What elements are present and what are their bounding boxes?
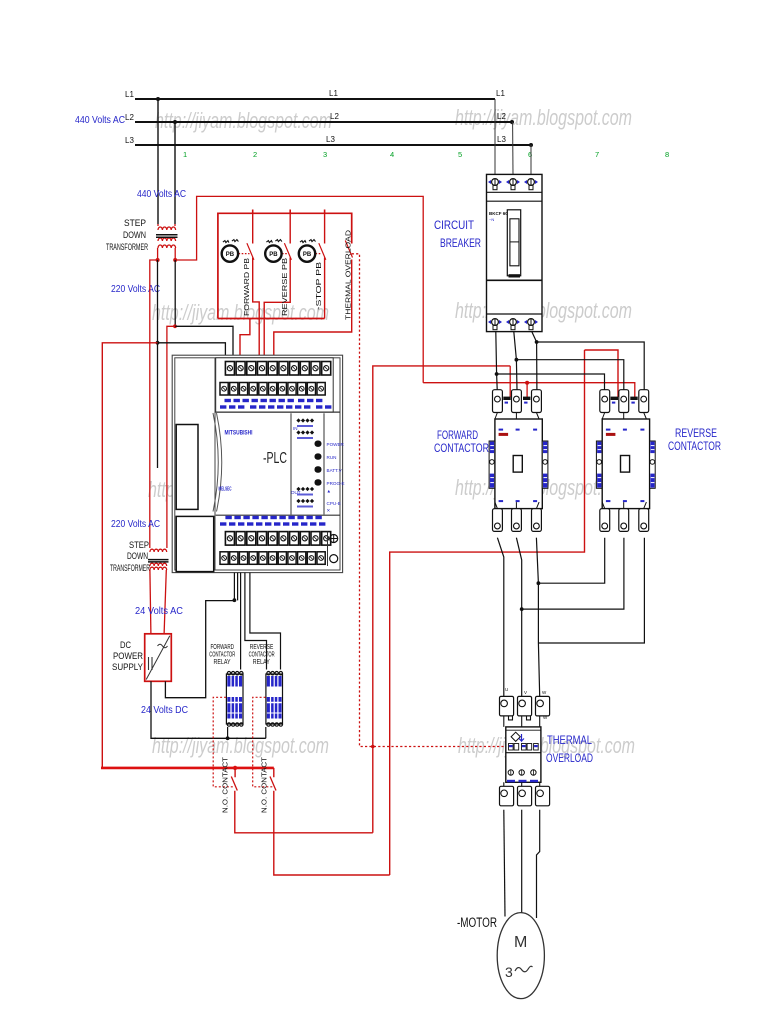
overload screws [508,770,513,775]
wire DC supply output B (to PLC common) [165,601,234,698]
pushbutton FORWARD PB [222,240,239,262]
overload lug stems [504,716,540,727]
wire crossover fwd T2 to rev T2 [522,538,624,609]
pushbutton STOP PB [299,240,316,262]
junction dot coil bus / forward coil [525,381,529,385]
svg-text:L3: L3 [497,135,506,144]
green sheet numbers [183,150,669,159]
junction dot contact 1 feed [233,766,237,770]
svg-text:U: U [505,687,508,692]
svg-text:L2: L2 [497,112,506,121]
circuit breaker CB1 [487,174,543,331]
wire T2 secondary left to DC supply [150,570,151,634]
wire forward T3 output down [536,538,539,697]
svg-text:POWER: POWER [113,651,143,661]
svg-text:DC: DC [120,640,131,650]
wire black stub below 220V node [157,343,159,468]
PLC left module rectangle [176,425,198,510]
N.O. contact 1 (forward) [235,768,373,833]
pushbutton box bottom rail [218,318,325,320]
svg-text:L1: L1 [329,89,338,98]
wire overload U to motor [504,810,505,917]
svg-text:THERMAL: THERMAL [547,733,592,747]
svg-text:220 Volts AC: 220 Volts AC [111,283,160,295]
svg-text:CONTACTOR: CONTACTOR [209,652,235,659]
svg-text:http://jiyam.blogspot.com: http://jiyam.blogspot.com [152,733,329,758]
PLC LED panel diamonds top group [293,418,314,439]
svg-text:V: V [524,690,527,695]
svg-text:L2: L2 [330,112,339,121]
wire forward T2 output to overload V [516,538,521,697]
PLC top terminal row 2 [220,383,325,396]
contact 1 blade [231,777,237,791]
PLC U1 Mitsubishi [172,355,342,572]
pushbutton branch REVERSE PB wire [264,213,290,385]
junction dot L1 tap [156,97,160,101]
svg-text:✕: ✕ [327,508,331,513]
wire forward coil return riser [373,366,510,833]
svg-text:http://jiyam.blogspot.com: http://jiyam.blogspot.com [455,298,632,323]
svg-text:FORWARD PB: FORWARD PB [242,258,251,316]
PLC bottom right mount screw [328,532,338,566]
red control bus thick (24V to contacts) [101,767,274,770]
wire 220V link to T2 primary right [167,326,175,548]
svg-text:THERMAL OVERLOAD: THERMAL OVERLOAD [344,229,353,320]
junction dot L2 breaker corner [510,120,514,124]
breaker top terminal L1 [488,179,502,190]
PLC bottom terminal row 1 [225,532,330,546]
svg-text:6: 6 [528,150,532,159]
thermal overload branch right rail [274,260,352,386]
red dashed linkage box reverse relay [253,697,273,787]
wire L1 parallel feed to reverse contactor [497,374,605,390]
junction dot L2 tap [173,120,177,124]
PLC face curve arc [217,413,222,512]
overload bottom strip [507,780,515,783]
svg-text:IN: IN [293,426,298,431]
label REVERSE CONTACTOR RELAY [249,644,275,666]
label STEP DOWN TRANSFORMER T2 [110,540,150,573]
svg-text:RELAY: RELAY [214,659,231,666]
node 220V supply junction right [173,324,177,328]
wire PLC bottom terminals to common junction [234,573,237,601]
thermal overload OL1 [500,687,550,806]
wire L3 drop to breaker [530,145,532,174]
PLC bottom-left module rectangle [176,516,214,571]
pushbutton branch STOP PB wire [324,213,326,318]
wire forward relay bottom pin to common bus [227,727,229,738]
svg-text:CONTACTOR: CONTACTOR [434,441,489,455]
wire forward coil drop [526,383,528,397]
wire forward coil drop from return bus [509,366,511,397]
red dotted link pb2 [282,253,287,255]
label THERMAL OVERLOAD [546,733,593,765]
PLC top blue label strip A [225,399,323,402]
transformer T2 core [148,559,169,561]
relay K2 reverse [266,672,283,727]
svg-text:220 Volts AC: 220 Volts AC [111,518,160,530]
wire forward T1 output to overload U [497,538,503,697]
wire T1 secondary left continues down as black [157,260,159,343]
svg-text:N.O. CONTACT: N.O. CONTACT [260,757,269,813]
wire DC supply output A (to relay commons) [151,681,266,738]
svg-text:RUN: RUN [327,455,337,460]
wire breaker T2 to forward contactor and reverse bus [514,332,517,390]
PLC bottom right hole [330,555,338,563]
wire 220V secondary left to left rail corner [150,260,158,548]
wire 220V to PLC supply terminal upper [175,326,233,385]
wire 220V secondary right to control feed riser [175,196,423,382]
label STEP DOWN TRANSFORMER T1 [106,218,148,252]
svg-text:L2: L2 [125,113,134,122]
svg-text:CONTACTOR: CONTACTOR [668,439,721,453]
svg-text:TRANSFORMER: TRANSFORMER [106,242,148,252]
red dashed thermal overload linkage [352,254,506,747]
junction dot T1 fanout [495,372,499,376]
junction dot T2 fanout [515,358,519,362]
svg-text:http://jiyam.blogspot.com: http://jiyam.blogspot.com [455,105,632,130]
wire PLC output to reverse relay coil A [245,573,267,670]
transformer T2 step down 220/24 [150,549,167,570]
contact blade forward pb [247,243,254,260]
breaker bottom terminal T3 [524,319,538,330]
contact blade stop pb [319,243,326,260]
wire coil supply bus to contactor coils [423,383,635,397]
overload top lug U [500,696,514,716]
svg-text:CIRCUIT: CIRCUIT [434,218,475,232]
wire L1 drop to breaker [494,99,496,174]
transformer T1 core [156,234,178,236]
rail tap ticks [253,210,325,214]
pushbutton REVERSE PB [265,240,282,262]
contact blade reverse pb [284,243,291,260]
breaker bottom terminal T2 [506,319,520,330]
svg-text:DOWN: DOWN [123,230,146,240]
svg-text:MITSUBISHI: MITSUBISHI [225,430,253,437]
wire crossover rev T3 to overload W [538,538,644,643]
wire L2 drop to transformer T1 [174,122,176,224]
svg-text:8: 8 [665,150,669,159]
label REVERSE CONTACTOR [668,426,721,453]
contactor KM1 forward [489,390,548,532]
breaker top terminal L3 [524,179,538,190]
red dotted link pb3 [316,253,322,255]
svg-text:SUPPLY: SUPPLY [112,662,143,672]
svg-text:FORWARD: FORWARD [211,644,235,651]
svg-text:~N: ~N [489,217,494,222]
svg-text:L3: L3 [326,135,335,144]
wire overload W to motor [537,810,540,918]
svg-text:CPU-E: CPU-E [327,501,341,506]
PLC LED labels [327,442,345,513]
PLC top terminal row 1 [225,362,330,376]
svg-text:L1: L1 [496,89,505,98]
svg-text:-STOP PB: -STOP PB [314,262,323,310]
svg-text:3: 3 [323,150,327,159]
wire L2 drop to breaker [512,122,514,174]
overload bottom lug V [518,786,532,806]
svg-text:440 Volts AC: 440 Volts AC [75,114,125,126]
breaker top terminal L2 [506,179,520,190]
wire PLC output to forward relay coil [240,573,242,670]
junction dot T3 fanout [535,340,539,344]
svg-text:BKCF 60: BKCF 60 [489,211,508,216]
svg-text:http://jiyam.blogspot.com: http://jiyam.blogspot.com [152,300,329,325]
PLC LED panel diamonds bottom group [291,487,314,508]
wire left control rail (to N.O. contacts bus) [102,343,157,768]
contactor KM2 reverse [596,390,655,532]
svg-text:L3: L3 [125,136,134,145]
svg-text:4: 4 [390,150,394,159]
svg-text:7: 7 [595,150,599,159]
svg-text:REVERSE: REVERSE [250,644,274,651]
overload top lug W [536,696,550,716]
svg-text:TRANSFORMER: TRANSFORMER [110,563,150,573]
overload body [506,727,541,782]
junction dot L3 breaker corner [529,143,533,147]
red dotted link pb1 [239,253,250,255]
svg-text:M: M [514,934,527,951]
wire crossover fwd T3 to rev T1 [538,538,604,584]
wire L2 bus [135,121,512,123]
wire breaker T1 to forward contactor and reverse bus [496,332,497,390]
svg-text:3: 3 [505,964,513,980]
wire T2 secondary right to DC supply [164,570,166,634]
breaker bottom terminal T1 [488,319,502,330]
svg-text:2: 2 [253,150,257,159]
wire L3 bus [135,144,531,146]
svg-text:MELSEC: MELSEC [219,487,232,493]
pushbutton circuit red box top rail [218,213,352,318]
contact 2 blade [270,777,276,791]
transformer T1 step down 440/220 [158,224,176,260]
svg-text:PROG-E: PROG-E [327,481,345,486]
PLC divider before LED panel [290,413,292,514]
svg-text:OVERLOAD: OVERLOAD [546,751,593,765]
junction dot fwd T3 / rev T1 [537,581,541,585]
svg-text:REVERSE PB: REVERSE PB [280,258,289,316]
node T1 secondary right dot [173,258,177,262]
PLC top terminal block frame [216,358,334,412]
wire 220V to PLC supply terminal lower [158,343,226,385]
svg-text:-PLC: -PLC [263,450,287,467]
label FORWARD CONTACTOR RELAY [209,644,235,666]
wire overload V to motor [521,810,523,913]
svg-text:5: 5 [458,150,462,159]
wire L1 bus [135,98,495,100]
PLC bottom terminal row 2 [220,552,325,565]
svg-text:STEP: STEP [129,540,149,550]
wire bottom rail tap to PLC input [240,319,250,386]
svg-text:BREAKER: BREAKER [440,236,481,250]
junction dot forward relay common [226,736,230,740]
relay K1 forward [226,672,243,727]
svg-text:DOWN: DOWN [127,551,148,561]
DC power supply PS1 [145,634,172,682]
contact blade thermal overload nc [345,241,352,258]
label FORWARD CONTACTOR [434,428,489,455]
svg-text:N.O. CONTACT: N.O. CONTACT [221,757,230,813]
svg-text:CONTACTOR: CONTACTOR [249,652,275,659]
junction dot fwd T2 / rev T2 [520,607,524,611]
pushbutton branch FORWARD PB wire [253,213,260,385]
watermark row1 left [148,105,635,758]
wire reverse coil return riser [390,350,618,875]
N.O. contact 2 (reverse) [274,768,390,875]
PLC top blue label strip B [220,405,331,408]
svg-text:▲: ▲ [327,489,332,494]
svg-text:STEP: STEP [124,218,146,228]
PLC status LEDs [315,441,322,486]
svg-text:POWER: POWER [327,442,345,447]
overload dial diamond [511,732,520,741]
PLC bottom blue label strip B [220,522,325,525]
svg-text:24 Volts AC: 24 Volts AC [135,605,183,617]
svg-text:REVERSE: REVERSE [675,426,717,440]
wire PLC output to reverse relay coil B [250,573,281,670]
svg-text:http://jiyam.blogspot.com: http://jiyam.blogspot.com [155,108,332,133]
junction dot dashed/overload feed [371,745,375,749]
svg-text:24 Volts DC: 24 Volts DC [141,704,188,716]
overload bottom lug U [500,786,514,806]
svg-text:FORWARD: FORWARD [437,428,478,442]
wire L1 drop to transformer T1 [157,99,159,224]
wire breaker T3 to forward contactor and reverse bus [532,332,537,390]
motor M1 [497,913,544,999]
svg-text:BATT.V: BATT.V [327,468,343,473]
svg-text:-MOTOR: -MOTOR [457,915,497,930]
node T1 secondary left dot [156,258,160,262]
wire reverse relay bottom pin to common bus [265,727,267,738]
wire T1 secondary right down to PLC supply corner [174,260,176,326]
wire L3 parallel feed to reverse contactor [537,342,645,390]
label DC POWER SUPPLY [112,640,143,672]
overload terminal micro squares [509,744,539,751]
svg-text:RELAY: RELAY [253,659,270,666]
overload top lug V [518,696,532,716]
svg-text:1: 1 [183,150,187,159]
red dashed linkage box forward relay [213,697,234,787]
svg-text:440 Volts AC: 440 Volts AC [137,188,186,200]
wire L2 parallel feed to reverse contactor [516,360,623,390]
svg-text:L1: L1 [125,90,134,99]
junction dot PLC common [233,598,237,602]
PLC bottom blue label strip A [225,516,321,519]
node 220V supply junction left [156,341,160,345]
breaker toggle handle [507,210,520,276]
overload bottom lug W [536,786,550,806]
